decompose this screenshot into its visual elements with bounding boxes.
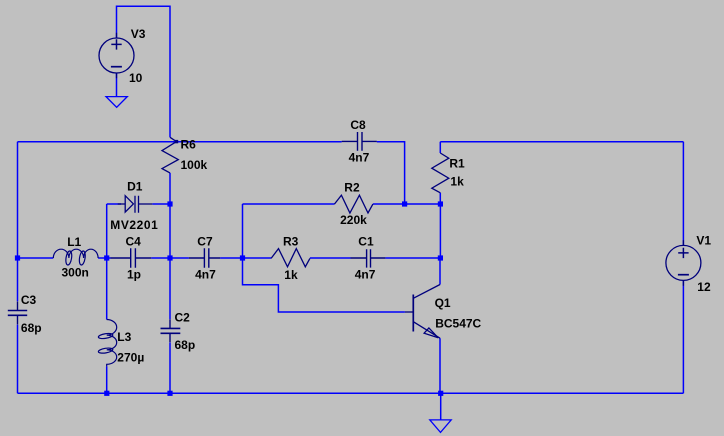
wire R6 bottom vertical through junctions to C2	[169, 173, 171, 393]
svg-text:BC547C: BC547C	[435, 317, 481, 331]
capacitor C3	[8, 302, 27, 325]
svg-text:270µ: 270µ	[117, 351, 144, 365]
svg-text:C2: C2	[175, 311, 191, 325]
wire V3 top to R6 top	[117, 6, 171, 137]
capacitor C4	[111, 248, 152, 267]
resistor R3	[271, 249, 310, 267]
voltage source V1	[666, 240, 701, 286]
wire D1 anode down to main row	[106, 204, 108, 258]
wire R2 left vertical link	[242, 204, 244, 258]
svg-text:R3: R3	[283, 235, 299, 249]
svg-text:12: 12	[697, 280, 711, 294]
ground bottom	[430, 420, 451, 433]
svg-text:Q1: Q1	[435, 296, 451, 310]
ground under V3	[106, 97, 127, 108]
svg-text:C1: C1	[358, 235, 374, 249]
svg-text:68p: 68p	[175, 338, 196, 352]
svg-text:R1: R1	[449, 157, 465, 171]
svg-text:D1: D1	[127, 180, 143, 194]
svg-text:C8: C8	[350, 118, 366, 132]
wire emitter down	[439, 338, 441, 393]
junction node at (170,258)	[167, 255, 172, 260]
junction node at (17,258)	[15, 255, 20, 260]
wire collector up	[439, 258, 441, 285]
svg-text:1k: 1k	[450, 175, 464, 189]
transistor Q1	[405, 285, 440, 339]
svg-text:C4: C4	[126, 235, 142, 249]
junction node at (440.4,204)	[438, 201, 443, 206]
wire top horizontal left to C8	[18, 141, 342, 143]
junction node at (242.5,258)	[240, 255, 245, 260]
wire top right	[440, 142, 683, 204]
wire base staircase	[243, 258, 405, 312]
junction node at (440.7,393)	[438, 391, 443, 396]
junction on R6 top	[175, 140, 178, 143]
svg-text:68p: 68p	[21, 321, 42, 335]
svg-text:4n7: 4n7	[195, 268, 216, 282]
capacitor C7	[189, 248, 220, 267]
wire main row	[18, 257, 441, 259]
resistor R2	[334, 195, 373, 213]
varactor diode D1	[118, 196, 153, 213]
junction node at (440.4,258)	[438, 255, 443, 260]
resistor R6	[162, 137, 178, 173]
svg-text:220k: 220k	[340, 213, 367, 227]
junction node at (170,204)	[167, 201, 172, 206]
wire R1 bottom to main row	[439, 204, 441, 258]
wire ground stub	[440, 393, 442, 420]
svg-text:R6: R6	[181, 137, 197, 151]
svg-text:V3: V3	[131, 27, 146, 41]
inductor L3	[98, 320, 117, 367]
resistor R1	[432, 153, 449, 193]
wire C8 right to R2 top junction	[377, 142, 405, 204]
capacitor C8	[342, 132, 377, 151]
svg-text:L3: L3	[117, 330, 131, 344]
svg-text:100k: 100k	[181, 158, 208, 172]
junction node at (170,393)	[167, 391, 172, 396]
junction node at (106.7,258)	[104, 255, 109, 260]
voltage source V3	[99, 33, 134, 79]
wire R2 row	[243, 203, 441, 205]
svg-text:10: 10	[129, 71, 143, 85]
wire left column	[17, 142, 19, 394]
svg-text:C7: C7	[197, 235, 213, 249]
wire bottom rail	[18, 392, 684, 394]
svg-text:R2: R2	[344, 180, 360, 194]
wire D1 row	[107, 203, 170, 205]
svg-text:C3: C3	[21, 293, 37, 307]
svg-text:MV2201: MV2201	[110, 218, 158, 232]
capacitor C1	[351, 249, 386, 267]
junction node at (106.8,393)	[104, 391, 109, 396]
inductor L1	[53, 249, 98, 265]
capacitor C2	[161, 319, 181, 342]
svg-text:300n: 300n	[62, 266, 89, 280]
svg-text:L1: L1	[67, 235, 81, 249]
junction node at (404.6,204)	[402, 201, 407, 206]
svg-text:4n7: 4n7	[355, 267, 376, 281]
svg-text:4n7: 4n7	[349, 151, 370, 165]
wire V1 column	[682, 142, 684, 394]
svg-text:1p: 1p	[127, 268, 141, 282]
svg-text:1k: 1k	[284, 268, 298, 282]
wire L3 leads	[106, 258, 108, 393]
svg-text:V1: V1	[696, 234, 711, 248]
wire V3 bottom to ground	[116, 73, 118, 97]
